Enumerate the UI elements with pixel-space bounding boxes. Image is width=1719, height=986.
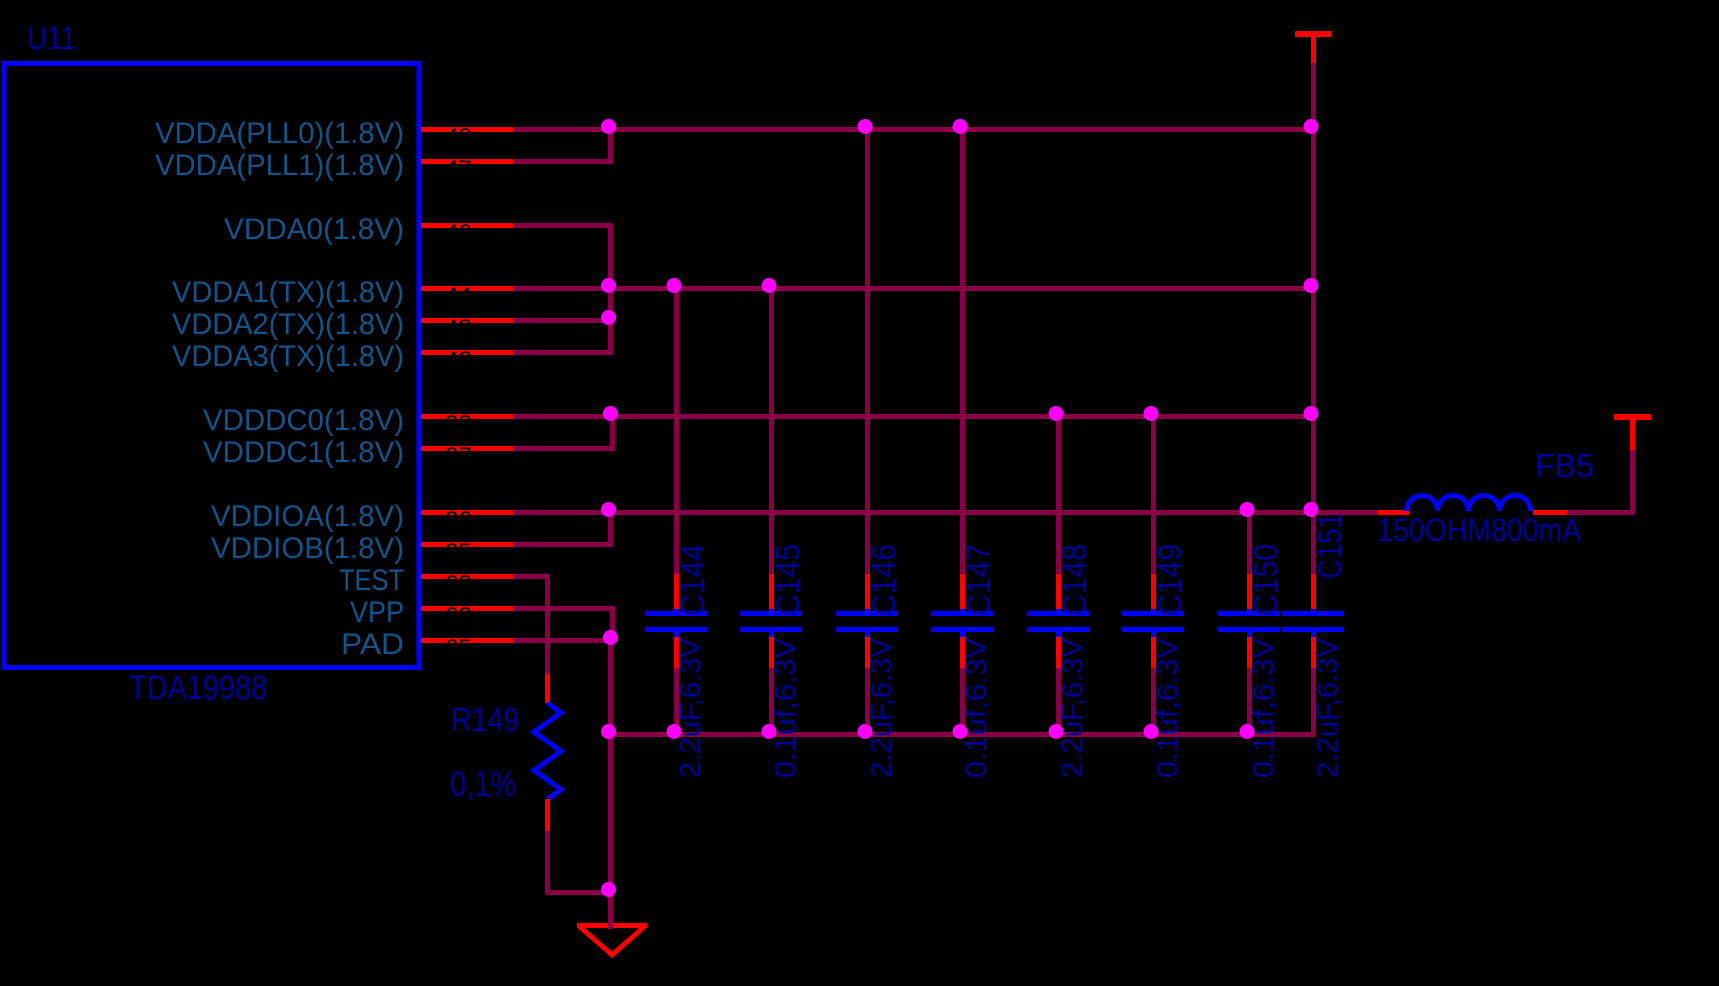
wire: PAD pin to ground vertical [513, 638, 613, 643]
wire: VDDA(PLL) 1.8V rail (row y=129) [513, 127, 1316, 132]
wire: VDDA(PLL1) pin to tie vertical [513, 159, 613, 164]
U11 reference designator label [27, 20, 76, 56]
TDA19988 part value label [129, 669, 267, 707]
U11 pin stub for VDDA(PLL0)(1.8V) [421, 127, 513, 132]
wire: VDDA2 pin to tie vertical [513, 318, 613, 323]
svg-text:C147: C147 [960, 544, 997, 616]
junction at (1058,416) [1049, 406, 1064, 421]
svg-text:37: 37 [445, 443, 472, 470]
pin number 46 for VDDA0(1.8V) [445, 220, 472, 247]
U11 pin name label VDDA2(TX)(1.8V) [172, 308, 404, 341]
capacitor C150 0.1uf,6.3V [1218, 510, 1280, 737]
pin number 44 for VDDA1(TX)(1.8V) [445, 283, 472, 310]
ground symbol [577, 922, 647, 957]
wire: FB5 output to right power symbol [1567, 510, 1635, 515]
capacitor C151 reference label [1311, 513, 1348, 579]
svg-text:46: 46 [445, 220, 472, 247]
pin number 43 for VDDA2(TX)(1.8V) [445, 315, 472, 342]
wire: VDDIOB pin to tie vertical [513, 542, 613, 547]
wire: vertical tie VDDDC0-VDDDC1 [610, 414, 615, 451]
svg-text:C144: C144 [674, 544, 711, 616]
svg-text:PAD: PAD [341, 628, 404, 661]
wire: vertical tie VDDA(PLL0)-VDDA(PLL1) [608, 127, 613, 164]
pin number 65 for PAD [445, 635, 472, 662]
wire: VDDDC0 1.8V rail (row y=416) [513, 414, 1316, 419]
svg-text:0,1%: 0,1% [450, 765, 516, 804]
junction at (1153,734) [1144, 724, 1159, 739]
wire: VDDA1 1.8V rail (row y=288) [513, 286, 1316, 291]
svg-text:42: 42 [445, 347, 472, 374]
capacitor C146 reference label [865, 544, 902, 616]
U11 pin stub for TEST [421, 574, 513, 579]
svg-text:C150: C150 [1247, 544, 1284, 616]
svg-text:VDDIOA(1.8V): VDDIOA(1.8V) [211, 500, 404, 533]
U11 pin stub for VDDDC0(1.8V) [421, 414, 513, 419]
power symbol +1.8V (top) [1295, 31, 1331, 63]
op-amp/IC U11 TDA19988 body outline [4, 64, 419, 668]
svg-text:C145: C145 [769, 544, 806, 616]
resistor R149 reference label [451, 701, 519, 738]
svg-text:62: 62 [445, 603, 472, 630]
pin number 37 for VDDDC1(1.8V) [445, 443, 472, 470]
capacitor C145 0.1uf,6.3V [740, 286, 802, 737]
junction at (962,129) [953, 119, 968, 134]
junction at (867,129) [858, 119, 873, 134]
wire: vertical tie VPP-PAD [610, 606, 615, 643]
pin number 42 for VDDA3(TX)(1.8V) [445, 347, 472, 374]
U11 pin stub for VDDA0(1.8V) [421, 223, 513, 228]
wire: VDDDC1 pin to tie vertical [513, 446, 615, 451]
svg-text:VDDA(PLL0)(1.8V): VDDA(PLL0)(1.8V) [155, 117, 404, 150]
capacitor C146 value label 2.2uF,6.3V [866, 637, 898, 778]
svg-text:0.1uf,6.3V: 0.1uf,6.3V [770, 637, 802, 778]
ferrite bead FB5 150OHM800mA [1378, 495, 1567, 515]
svg-text:48: 48 [445, 124, 472, 151]
svg-text:2.2uF,6.3V: 2.2uF,6.3V [1312, 637, 1344, 778]
wire: C151 bottom to ground bus [1311, 668, 1316, 737]
junction at (1313,129) [1304, 119, 1319, 134]
junction at (1313,288) [1304, 278, 1319, 293]
svg-text:0.1uf,6.3V: 0.1uf,6.3V [1152, 637, 1184, 778]
junction at (610.5,129) [601, 119, 616, 134]
capacitor C147 value label 0.1uf,6.3V [961, 637, 993, 778]
pin number 63 for TEST [445, 571, 472, 598]
U11 pin name label VDDA(PLL0)(1.8V) [155, 117, 404, 150]
capacitor C149 reference label [1151, 544, 1188, 616]
svg-text:65: 65 [445, 635, 472, 662]
wire: VDDIOA 1.8V rail (row y=512) [513, 510, 1378, 515]
pin number 25 for VDDIOB(1.8V) [445, 539, 472, 566]
capacitor C151 value label 2.2uF,6.3V [1312, 637, 1344, 778]
svg-text:25: 25 [445, 539, 472, 566]
junction at (1249,512) [1240, 502, 1255, 517]
junction at (1058,734) [1049, 724, 1064, 739]
svg-text:38: 38 [445, 411, 472, 438]
junction at (612.5,640) [603, 630, 618, 645]
svg-text:C146: C146 [865, 544, 902, 616]
pin number 48 for VDDA(PLL0)(1.8V) [445, 124, 472, 151]
U11 pin name label PAD [341, 628, 404, 661]
junction at (610.5,734) [601, 724, 616, 739]
capacitor C146 2.2uF,6.3V [836, 127, 898, 737]
svg-text:43: 43 [445, 315, 472, 342]
capacitor C150 value label 0.1uf,6.3V [1248, 637, 1280, 778]
U11 pin name label VDDIOA(1.8V) [211, 500, 404, 533]
junction at (1153,416) [1144, 406, 1159, 421]
U11 pin stub for VDDIOA(1.8V) [421, 510, 513, 515]
junction at (1249,734) [1240, 724, 1255, 739]
svg-text:44: 44 [445, 283, 472, 310]
junction at (771,734) [762, 724, 777, 739]
wire: vertical PAD/ground net down to ground symbol [608, 638, 613, 925]
junction at (610.5,320) [601, 310, 616, 325]
svg-text:63: 63 [445, 571, 472, 598]
wire: TEST pin to R149 branch [513, 574, 550, 579]
wire: TEST net down to R149 [545, 574, 550, 674]
svg-text:VDDA3(TX)(1.8V): VDDA3(TX)(1.8V) [172, 340, 404, 373]
U11 pin name label VDDDC1(1.8V) [203, 436, 404, 469]
wire: ground bus (row y=734) [608, 732, 1316, 737]
capacitor C148 value label 2.2uF,6.3V [1057, 637, 1089, 778]
junction at (771,288) [762, 278, 777, 293]
U11 pin name label TEST [339, 564, 404, 597]
resistor R149 tolerance label 0,1% [450, 765, 516, 804]
svg-text:TDA19988: TDA19988 [129, 669, 267, 707]
svg-text:VDDA(PLL1)(1.8V): VDDA(PLL1)(1.8V) [155, 149, 404, 182]
capacitor C145 value label 0.1uf,6.3V [770, 637, 802, 778]
U11 pin stub for VDDA2(TX)(1.8V) [421, 318, 513, 323]
svg-text:TEST: TEST [339, 564, 404, 597]
svg-text:C149: C149 [1151, 544, 1188, 616]
wire: R149 bottom to ground vertical [545, 890, 613, 895]
svg-text:VDDA1(TX)(1.8V): VDDA1(TX)(1.8V) [172, 276, 404, 309]
capacitor C149 0.1uf,6.3V [1122, 414, 1184, 737]
U11 pin stub for VDDA1(TX)(1.8V) [421, 286, 513, 291]
U11 pin name label VDDA3(TX)(1.8V) [172, 340, 404, 373]
junction at (676,288) [667, 278, 682, 293]
svg-text:150OHM800mA: 150OHM800mA [1377, 512, 1582, 548]
pin number 26 for VDDIOA(1.8V) [445, 507, 472, 534]
junction at (1313,512) [1304, 502, 1319, 517]
svg-text:R149: R149 [451, 701, 519, 738]
wire: vertical tie VDDIOA-VDDIOB [608, 510, 613, 547]
FB5 reference label [1535, 447, 1594, 484]
U11 pin name label VDDA0(1.8V) [224, 213, 404, 246]
wire: right power symbol down to FB5 row [1630, 450, 1635, 515]
junction at (962,734) [953, 724, 968, 739]
pin number 38 for VDDDC0(1.8V) [445, 411, 472, 438]
junction at (867,734) [858, 724, 873, 739]
FB5 value label 150OHM800mA [1377, 512, 1582, 548]
junction at (1313,416) [1304, 406, 1319, 421]
svg-text:2.2uF,6.3V: 2.2uF,6.3V [1057, 637, 1089, 778]
capacitor C144 reference label [674, 544, 711, 616]
capacitor C148 reference label [1056, 544, 1093, 616]
wire: vertical tie VDDA0-VDDA3 [608, 223, 613, 355]
U11 pin name label VPP [350, 596, 404, 629]
svg-text:2.2uF,6.3V: 2.2uF,6.3V [675, 637, 707, 778]
U11 pin name label VDDA1(TX)(1.8V) [172, 276, 404, 309]
svg-text:U11: U11 [27, 20, 76, 56]
wire: VDDA0 pin to tie vertical [513, 223, 613, 228]
svg-text:VDDA2(TX)(1.8V): VDDA2(TX)(1.8V) [172, 308, 404, 341]
svg-text:VDDIOB(1.8V): VDDIOB(1.8V) [211, 532, 404, 565]
svg-text:VDDA0(1.8V): VDDA0(1.8V) [224, 213, 404, 246]
svg-text:FB5: FB5 [1535, 447, 1594, 484]
capacitor C151 2.2uF,6.3V [1282, 574, 1344, 668]
U11 pin stub for VPP [421, 606, 513, 611]
svg-text:2.2uF,6.3V: 2.2uF,6.3V [866, 637, 898, 778]
power symbol +1.8V (right, FB5 input) [1614, 414, 1651, 450]
svg-text:26: 26 [445, 507, 472, 534]
capacitor C149 value label 0.1uf,6.3V [1152, 637, 1184, 778]
pin number 62 for VPP [445, 603, 472, 630]
capacitor C148 2.2uF,6.3V [1027, 414, 1089, 737]
junction at (610.5,512) [601, 502, 616, 517]
svg-text:VDDDC1(1.8V): VDDDC1(1.8V) [203, 436, 404, 469]
capacitor C147 reference label [960, 544, 997, 616]
svg-text:0.1uf,6.3V: 0.1uf,6.3V [961, 637, 993, 778]
U11 pin stub for VDDA3(TX)(1.8V) [421, 350, 513, 355]
wire: VDDA3 pin to tie vertical [513, 350, 613, 355]
U11 pin stub for VDDA(PLL1)(1.8V) [421, 159, 513, 164]
junction at (610.5,288) [601, 278, 616, 293]
capacitor C144 2.2uF,6.3V [645, 286, 707, 737]
junction at (612.5,416) [603, 406, 618, 421]
U11 pin name label VDDDC0(1.8V) [203, 404, 404, 437]
wire: main 1.8V vertical from top power symbol [1311, 63, 1316, 574]
U11 pin stub for VDDIOB(1.8V) [421, 542, 513, 547]
svg-text:VDDDC0(1.8V): VDDDC0(1.8V) [203, 404, 404, 437]
wire: VPP pin to PAD tie [513, 606, 615, 611]
svg-text:47: 47 [445, 156, 472, 183]
capacitor C145 reference label [769, 544, 806, 616]
pin number 47 for VDDA(PLL1)(1.8V) [445, 156, 472, 183]
resistor R149 0,1% [534, 674, 561, 831]
junction at (676,734) [667, 724, 682, 739]
svg-text:C148: C148 [1056, 544, 1093, 616]
U11 pin name label VDDIOB(1.8V) [211, 532, 404, 565]
U11 pin stub for VDDDC1(1.8V) [421, 446, 513, 451]
capacitor C150 reference label [1247, 544, 1284, 616]
U11 pin name label VDDA(PLL1)(1.8V) [155, 149, 404, 182]
wire: R149 bottom lead down [545, 831, 550, 892]
U11 pin stub for PAD [421, 638, 513, 643]
svg-text:0.1uf,6.3V: 0.1uf,6.3V [1248, 637, 1280, 778]
capacitor C144 value label 2.2uF,6.3V [675, 637, 707, 778]
capacitor C147 0.1uf,6.3V [931, 127, 993, 737]
svg-text:VPP: VPP [350, 596, 404, 629]
junction at (610.5,892) [601, 882, 616, 897]
svg-text:C151: C151 [1311, 513, 1348, 579]
